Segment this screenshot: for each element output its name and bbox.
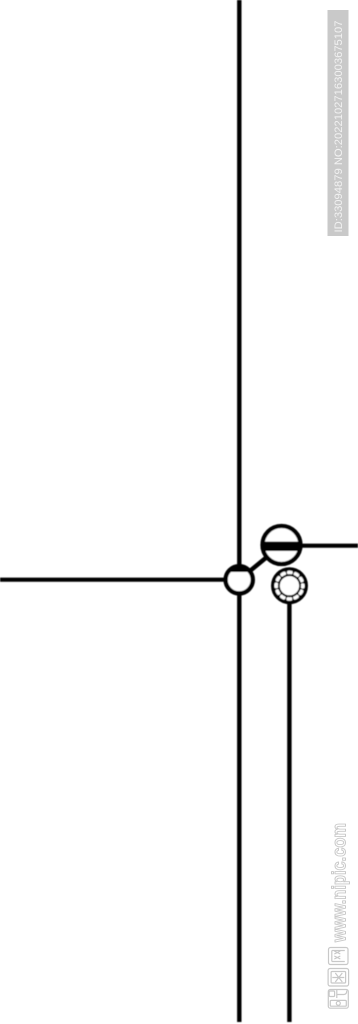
- svg-text:www.nipic.com: www.nipic.com: [329, 823, 350, 943]
- glyph ni: [328, 990, 348, 1009]
- glyph tu: [328, 969, 349, 987]
- watermark gray bar top right: [328, 10, 349, 236]
- node C: scalloped ring symbol: [273, 569, 307, 603]
- glyph wang: [329, 948, 349, 965]
- node B: large circle with horizontal black band: [259, 526, 305, 564]
- wire: diagonal link between node A and node B: [239, 545, 281, 580]
- wire: horizontal line from left edge: [0, 578, 240, 582]
- wire: horizontal line to right edge: [281, 544, 358, 548]
- svg-text:ID:33094879 NO:202210271630036: ID:33094879 NO:20221027163003675107: [333, 21, 345, 233]
- watermark nipic bottom right: [328, 823, 350, 1008]
- wire: main vertical line: [237, 0, 241, 1022]
- wire: second vertical line below node C: [287, 600, 291, 1022]
- node A: junction circle with filled top segment: [226, 565, 253, 594]
